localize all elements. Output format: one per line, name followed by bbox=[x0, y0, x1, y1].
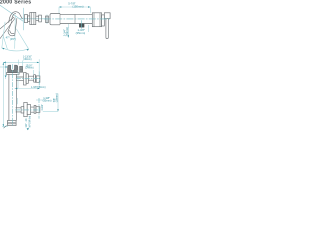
top dimension line bbox=[59, 6, 90, 8]
ext vline clip right bbox=[17, 60, 19, 88]
top dim line bbox=[3, 61, 39, 63]
under-tube arrow bbox=[68, 35, 69, 37]
view3 centerlines bbox=[12, 64, 40, 126]
lower right dim hline bbox=[43, 110, 58, 112]
lower ext vline x17.5 bbox=[17, 98, 19, 104]
svg-text:NPSM thd: NPSM thd bbox=[28, 115, 32, 127]
svg-text:(16mm): (16mm) bbox=[55, 93, 59, 102]
body tube verticals bbox=[9, 74, 17, 120]
fan vertical centerline bbox=[14, 15, 17, 49]
svg-text:2000 Series: 2000 Series bbox=[0, 0, 31, 6]
bracket centerline bbox=[81, 20, 83, 28]
valve horizontal centerline bbox=[19, 18, 47, 20]
lever left position bottom edge bbox=[0, 19, 15, 39]
fan cyan right edge bbox=[17, 29, 29, 48]
arc arrow left bbox=[2, 48, 4, 50]
svg-text:(35mm): (35mm) bbox=[43, 98, 52, 102]
lower end fitting bbox=[36, 107, 40, 113]
lower right dim vline bbox=[57, 94, 59, 112]
main centerline bbox=[44, 18, 111, 20]
side button bbox=[20, 66, 23, 72]
ext vline button right bbox=[21, 61, 23, 67]
fan cyan left edge bbox=[2, 22, 5, 48]
lower centerline horizontal bbox=[15, 109, 40, 111]
lower centerline vertical bbox=[38, 98, 40, 119]
knob flange bbox=[6, 73, 19, 75]
wall union tail bbox=[46, 16, 49, 23]
lower ring2 bbox=[27, 105, 30, 115]
tube step bbox=[74, 14, 76, 23]
handle cap bbox=[104, 13, 110, 19]
lower flange bbox=[24, 102, 27, 116]
lower connector shaft bbox=[16, 108, 22, 112]
under-tube bracket bbox=[79, 24, 84, 27]
right block bbox=[92, 13, 101, 27]
lever dome inner line bbox=[12, 13, 16, 20]
mid below dim line bbox=[15, 88, 40, 90]
mid centerline horizontal bbox=[16, 78, 40, 80]
svg-text:1/2" -14: 1/2" -14 bbox=[24, 118, 28, 128]
mid connector shaft bbox=[16, 77, 23, 80]
lower leader hline bbox=[36, 99, 45, 101]
valve vertical centerline bbox=[23, 8, 25, 30]
small left dim at clip bbox=[0, 66, 8, 68]
extension line left bbox=[58, 7, 60, 13]
ext vline x39.2 bbox=[38, 59, 40, 72]
lever axis centerline bbox=[0, 5, 23, 21]
bottom outlet bbox=[7, 121, 16, 126]
stem bbox=[102, 15, 105, 26]
shaft bbox=[36, 16, 39, 21]
lever down position right edge bbox=[15, 18, 17, 35]
fan cyan mid-left radial bbox=[3, 36, 7, 49]
wall flange bbox=[50, 14, 60, 25]
left vertical dim line bbox=[2, 62, 4, 126]
below-connector arrow bbox=[27, 128, 29, 130]
mid ring2 bbox=[26, 74, 28, 84]
svg-text:(150mm): (150mm) bbox=[72, 5, 83, 9]
tube body bbox=[60, 14, 92, 23]
lower ring1 bbox=[21, 107, 24, 113]
arc arrow right bbox=[27, 49, 29, 51]
mid flange bbox=[24, 73, 27, 86]
tail centerline tick bbox=[46, 15, 48, 24]
mid end fitting bbox=[35, 76, 40, 82]
under-tube vertical ext line bbox=[67, 24, 69, 38]
handle knob U-clip bbox=[8, 65, 18, 72]
lever down tip outer arc bbox=[8, 31, 15, 35]
valve bonnet rect bbox=[24, 15, 27, 23]
bottom slash tick bbox=[4, 125, 7, 128]
lower pipe bbox=[31, 107, 34, 112]
ext vline x33.7 bbox=[33, 70, 35, 75]
end cap bbox=[39, 15, 42, 22]
svg-text:1-3/8"(35mm): 1-3/8"(35mm) bbox=[31, 86, 46, 89]
view3 arrows bbox=[3, 62, 59, 127]
mid collar bbox=[34, 75, 36, 82]
spacer rect bbox=[28, 16, 30, 21]
ext vline left of clip bbox=[5, 61, 7, 79]
lever down position left edge bbox=[8, 22, 12, 32]
handle lever bbox=[106, 19, 108, 39]
ext line for 35mm bbox=[87, 25, 89, 32]
body centerline bbox=[11, 64, 13, 126]
angle arc dimension bbox=[2, 48, 29, 51]
svg-text:(24mm): (24mm) bbox=[25, 66, 33, 69]
hex nut bbox=[30, 12, 36, 24]
mid centerline vertical bbox=[38, 72, 40, 88]
mid thin shaft bbox=[28, 76, 33, 80]
bottom ext hline bbox=[2, 126, 8, 128]
lever left position top edge bbox=[0, 17, 14, 29]
svg-text:(46mm): (46mm) bbox=[23, 58, 31, 61]
svg-text:(45°): (45°) bbox=[10, 37, 16, 41]
view3 cyan lines bbox=[0, 59, 58, 126]
svg-text:(70mm): (70mm) bbox=[65, 27, 69, 36]
lever dome up position bbox=[9, 12, 22, 23]
lower collar bbox=[34, 105, 36, 113]
svg-text:G1/2": G1/2" bbox=[40, 104, 44, 111]
dim arrows bbox=[59, 6, 90, 7]
lever down tip inner arc bbox=[10, 30, 14, 33]
svg-text:(35mm): (35mm) bbox=[76, 31, 86, 35]
extension line right bbox=[89, 7, 91, 12]
